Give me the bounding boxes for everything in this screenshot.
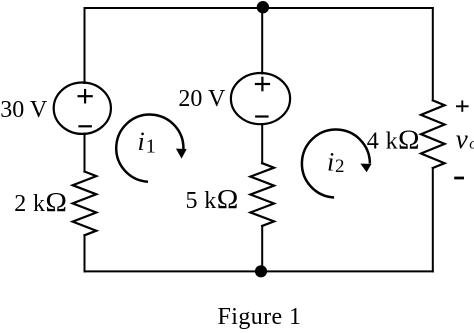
wire middle branch bottom (R2 to bottom node): [261, 226, 263, 272]
svg-text:20 V: 20 V: [178, 86, 226, 112]
wire top rail: [85, 7, 433, 9]
resistor R2 5 kOhm zigzag: [250, 163, 274, 226]
voltage source V1 30V body: [54, 83, 111, 134]
wire middle branch (V2 to R2): [261, 124, 263, 163]
svg-text:i2: i2: [327, 147, 345, 177]
resistor R1 2 kOhm zigzag: [73, 172, 97, 236]
resistor R3 4 kOhm zigzag: [421, 100, 445, 168]
mesh current i1 arrowhead: [176, 149, 187, 159]
node dot top junction: [257, 1, 269, 13]
node dot bottom junction: [255, 265, 267, 277]
mesh current i2 arc: [302, 130, 370, 198]
svg-text:2 kΩ: 2 kΩ: [14, 187, 67, 217]
mesh current i2 arrowhead: [360, 164, 371, 173]
wire bottom rail: [85, 270, 433, 272]
wire left branch top (top rail to V1): [84, 8, 86, 83]
mesh current i1 arc: [116, 115, 183, 182]
voltage source V2 20V body: [231, 73, 290, 124]
label minus (vo polarity): [454, 177, 464, 180]
svg-text:4 kΩ: 4 kΩ: [367, 125, 420, 155]
label plus (vo polarity): [456, 100, 469, 111]
svg-text:vo: vo: [456, 124, 474, 154]
wire right branch top (top rail to R3): [432, 8, 434, 100]
svg-text:5 kΩ: 5 kΩ: [186, 184, 239, 214]
wire middle branch top (top node to V2): [261, 8, 263, 74]
V2 plus sign: [255, 77, 270, 92]
wire left branch bottom (R1 to bottom rail): [84, 235, 86, 271]
V1 minus sign: [78, 125, 92, 127]
wire left branch middle (V1 to R1): [84, 134, 86, 172]
V2 minus sign: [255, 115, 269, 117]
svg-text:i1: i1: [138, 127, 156, 158]
svg-text:30 V: 30 V: [0, 97, 48, 123]
V1 plus sign: [78, 89, 93, 104]
wire right branch bottom (R3 to bottom rail): [432, 168, 434, 271]
svg-text:Figure 1: Figure 1: [218, 304, 302, 330]
